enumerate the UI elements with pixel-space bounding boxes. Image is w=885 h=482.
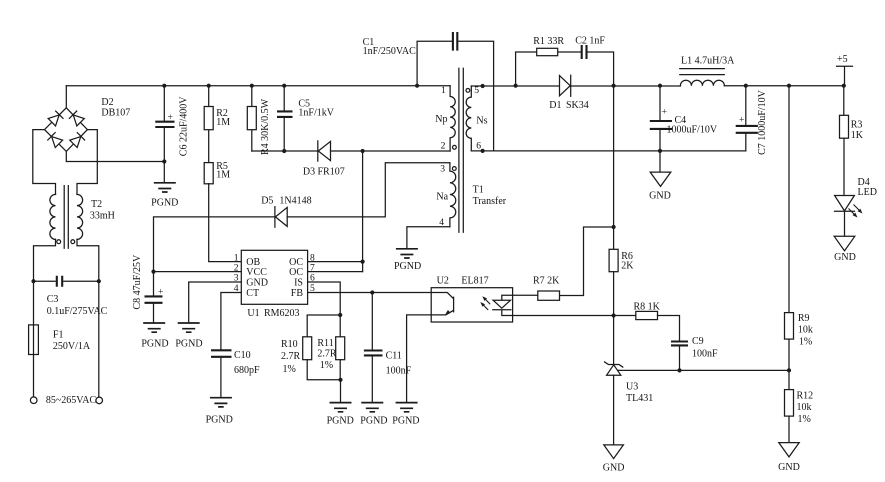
svg-text:1K: 1K <box>851 130 864 141</box>
svg-text:+: + <box>662 107 667 118</box>
capacitor C1 <box>417 41 494 151</box>
wire: AC input left column (terminal to fuse to C3 node) <box>33 281 35 397</box>
ground PGND under R10 R11 <box>330 403 352 412</box>
svg-text:F1: F1 <box>53 330 64 341</box>
diode D5 <box>274 207 276 228</box>
capacitor C7 <box>745 86 747 126</box>
svg-text:PGND: PGND <box>392 415 419 426</box>
svg-text:0.1uF/275VAC: 0.1uF/275VAC <box>47 306 108 317</box>
svg-text:1%: 1% <box>798 414 811 425</box>
svg-text:3: 3 <box>440 163 445 174</box>
snubber loop R1 C2 <box>516 52 614 86</box>
svg-text:C8 47uF/25V: C8 47uF/25V <box>132 254 143 310</box>
wire: OC pin7 loop <box>308 271 363 273</box>
svg-text:PGND: PGND <box>141 339 168 350</box>
wire: D3 to T1 pin2 <box>331 150 451 152</box>
capacitor C3 <box>57 276 62 287</box>
op-amp U1 RM6203 body <box>241 250 307 304</box>
wire: D5 anode to Na pin3 <box>287 163 450 217</box>
transformer T1 Np winding <box>450 86 455 151</box>
wire: OC pin8 <box>308 261 363 263</box>
svg-text:C10: C10 <box>234 350 251 361</box>
svg-text:33mH: 33mH <box>90 211 115 222</box>
terminal left <box>30 397 37 404</box>
ground PGND under C6 <box>154 183 176 192</box>
wire: node to R7 loop <box>560 227 614 296</box>
ground PGND under T1 pin4 <box>396 249 418 258</box>
wire: D5 cathode to VCC <box>154 217 275 272</box>
svg-text:10k: 10k <box>798 325 813 336</box>
capacitor C8 <box>153 272 155 296</box>
node D3 out <box>361 149 365 153</box>
svg-text:6: 6 <box>476 141 481 152</box>
svg-text:D1: D1 <box>549 100 561 111</box>
wire: TL431 ref line <box>618 369 789 371</box>
svg-text:D3: D3 <box>303 167 315 178</box>
node C6 top <box>162 84 166 88</box>
node R10 R11 bottom <box>338 378 342 382</box>
svg-text:Np: Np <box>435 114 447 125</box>
diode D3 <box>317 141 319 161</box>
svg-text:1%: 1% <box>283 364 296 375</box>
svg-text:T2: T2 <box>91 199 102 210</box>
svg-text:1M: 1M <box>216 117 230 128</box>
wire: opto emitter to ground <box>407 315 432 403</box>
fuse F1 <box>29 325 39 355</box>
svg-text:OC: OC <box>289 257 303 268</box>
svg-text:R4 30K/0.5W: R4 30K/0.5W <box>260 98 271 155</box>
resistor R9 <box>788 86 790 313</box>
svg-text:5: 5 <box>474 85 479 96</box>
diode D1 <box>560 76 571 96</box>
wire: secondary ground rail <box>471 150 746 152</box>
resistor R7 <box>513 294 538 296</box>
transformer T1 Na winding <box>450 163 456 227</box>
node C6 bottom <box>162 159 166 163</box>
svg-text:R9: R9 <box>798 313 810 324</box>
node R6 top <box>612 225 616 229</box>
ground PGND under C10 <box>210 398 232 407</box>
transistor Q inside U2 <box>431 293 453 315</box>
bridge diode bottom-right <box>70 133 85 148</box>
svg-text:FR107: FR107 <box>318 167 345 178</box>
svg-text:Ns: Ns <box>476 116 487 127</box>
wire: Na pin4 to ground <box>407 227 450 249</box>
svg-text:PGND: PGND <box>175 339 202 350</box>
opto light arrows <box>480 296 490 310</box>
ground PGND under C8 <box>143 323 165 332</box>
wire: C3 branch horizontal <box>34 280 99 282</box>
T1 phase dot pin3 <box>452 167 456 171</box>
svg-text:EL817: EL817 <box>461 276 488 287</box>
svg-text:100nF: 100nF <box>386 366 412 377</box>
node IS <box>338 313 342 317</box>
node OC pin8 <box>361 260 365 264</box>
node pin6 rail <box>481 149 485 153</box>
capacitor C6 <box>163 86 165 121</box>
capacitor C2 <box>582 45 587 59</box>
svg-text:GND: GND <box>834 252 856 263</box>
svg-text:D5: D5 <box>261 196 273 207</box>
wire: right leg up to T2 <box>77 239 99 281</box>
resistor R5 <box>204 163 213 184</box>
resistor R11 <box>336 337 345 360</box>
inductor L1 <box>680 80 724 86</box>
opto U2 EL817 body <box>431 288 512 322</box>
svg-text:R10: R10 <box>281 339 298 350</box>
wire: FB pin5 to opto <box>308 292 432 294</box>
LED D4 <box>835 196 855 211</box>
node pin5 rail <box>481 84 485 88</box>
capacitor C11 <box>371 293 373 350</box>
D4 emission arrows <box>849 205 863 218</box>
svg-text:PGND: PGND <box>206 415 233 426</box>
inductor T2 right winding <box>77 194 83 239</box>
node R9 R12 <box>787 368 791 372</box>
node VCC junction <box>151 270 155 274</box>
svg-text:+: + <box>168 112 173 123</box>
wire: primary top rail <box>66 85 450 87</box>
wire: CT pin4 to C10 <box>221 293 241 350</box>
node D1 out <box>612 84 616 88</box>
transformer T1 Ns winding <box>466 86 471 151</box>
T2 phase dot left <box>57 240 61 244</box>
svg-text:2: 2 <box>441 141 446 152</box>
ground PGND under opto <box>396 403 418 412</box>
ground PGND under C11 <box>361 403 383 412</box>
svg-text:250V/1A: 250V/1A <box>53 341 91 352</box>
svg-text:C2 1nF: C2 1nF <box>575 36 605 47</box>
bridge diode top-right <box>69 111 84 126</box>
svg-text:T1: T1 <box>473 185 484 196</box>
svg-text:U1: U1 <box>247 308 259 319</box>
capacitor C10 <box>211 350 232 357</box>
svg-text:1M: 1M <box>216 170 230 181</box>
resistor R8 <box>614 315 636 317</box>
svg-text:PGND: PGND <box>151 198 178 209</box>
resistor R6 <box>613 227 615 249</box>
opto LED inside U2 <box>502 295 513 300</box>
svg-text:RM6203: RM6203 <box>264 308 300 319</box>
resistor R2 <box>208 86 210 163</box>
T1 core <box>459 68 463 232</box>
svg-text:2.7R: 2.7R <box>281 351 301 362</box>
resistor R1 <box>537 48 558 55</box>
node R8 TL431 <box>612 313 616 317</box>
wire: left leg up to T2 <box>34 239 56 281</box>
svg-text:D2: D2 <box>101 97 113 108</box>
svg-text:FB: FB <box>291 288 304 299</box>
svg-text:IS: IS <box>294 278 303 289</box>
capacitor C4 <box>659 86 661 121</box>
svg-text:+5: +5 <box>837 54 848 65</box>
svg-text:2.7R: 2.7R <box>317 349 337 360</box>
ground GND under C4 <box>650 172 671 186</box>
capacitor C9 <box>671 342 688 346</box>
wire: IS pin6 branch <box>307 282 340 337</box>
svg-text:2K: 2K <box>621 260 634 271</box>
svg-text:PGND: PGND <box>394 261 421 272</box>
inductor T2 left winding <box>50 194 56 239</box>
svg-text:OC: OC <box>289 267 303 278</box>
wire: snubber bottom to D3 <box>252 150 318 152</box>
bridge D2 diamond <box>45 108 88 152</box>
svg-text:C6 22uF/400V: C6 22uF/400V <box>179 96 190 157</box>
svg-text:Transfer: Transfer <box>473 196 507 207</box>
wire: Vout sense riser to R6 node <box>613 86 615 227</box>
svg-text:C3: C3 <box>47 294 59 305</box>
svg-text:680pF: 680pF <box>234 365 260 376</box>
svg-text:1: 1 <box>441 85 446 96</box>
resistor R3 <box>843 86 845 116</box>
shunt regulator U3 TL431 <box>613 316 615 365</box>
wire: bridge bottom to gnd rail <box>66 151 164 161</box>
bridge diode bottom-left <box>48 133 63 148</box>
T2 core <box>64 186 68 249</box>
ground PGND pin3 <box>178 323 200 332</box>
svg-text:R1 33R: R1 33R <box>533 36 564 47</box>
wire: secondary top rail <box>471 85 844 87</box>
node R9 riser <box>787 84 791 88</box>
svg-text:R12: R12 <box>797 391 814 402</box>
svg-text:U2: U2 <box>437 276 449 287</box>
svg-text:PGND: PGND <box>360 415 387 426</box>
wire: opto cathode to R8 node <box>513 315 614 317</box>
svg-text:OB: OB <box>246 257 260 268</box>
svg-text:GND: GND <box>778 462 800 473</box>
wire: bridge top to rail <box>65 86 67 108</box>
resistor R4 <box>251 86 253 151</box>
svg-text:10k: 10k <box>797 402 812 413</box>
node C3 right <box>97 279 101 283</box>
svg-text:+: + <box>739 115 744 126</box>
svg-text:R11: R11 <box>317 338 333 349</box>
ground GND under U3 <box>604 445 624 459</box>
wire: T2 left top to bridge left corner <box>33 130 56 195</box>
svg-text:L1 4.7uH/3A: L1 4.7uH/3A <box>681 56 735 67</box>
svg-text:GND: GND <box>649 191 671 202</box>
svg-text:R7 2K: R7 2K <box>533 276 560 287</box>
svg-text:U3: U3 <box>626 382 638 393</box>
svg-text:CT: CT <box>246 288 259 299</box>
svg-text:SK34: SK34 <box>566 100 589 111</box>
wire: AC input right column <box>98 281 100 397</box>
T1 phase dot pin5 <box>466 89 470 93</box>
wire: VCC pin2 <box>154 271 242 273</box>
svg-text:1000uF/10V: 1000uF/10V <box>667 125 718 136</box>
svg-text:LED: LED <box>858 187 877 198</box>
svg-text:VCC: VCC <box>246 267 267 278</box>
T2 phase dot right <box>71 240 75 244</box>
svg-text:GND: GND <box>246 278 268 289</box>
ground GND under R12 <box>779 443 799 457</box>
T1 phase dot pin2 <box>453 145 457 149</box>
svg-text:+: + <box>158 286 163 297</box>
svg-text:R8 1K: R8 1K <box>634 302 661 313</box>
svg-text:GND: GND <box>603 463 625 474</box>
svg-text:PGND: PGND <box>327 415 354 426</box>
node FB C11 <box>370 290 374 294</box>
svg-text:Na: Na <box>436 192 448 203</box>
svg-text:C11: C11 <box>386 351 402 362</box>
terminal right <box>96 397 103 404</box>
svg-text:1%: 1% <box>320 360 333 371</box>
wire: GND pin3 to ground <box>189 282 242 323</box>
svg-text:100nF: 100nF <box>692 349 718 360</box>
svg-text:C7 1000uF/10V: C7 1000uF/10V <box>757 89 768 155</box>
resistor R10 <box>303 337 312 360</box>
svg-text:TL431: TL431 <box>626 393 653 404</box>
wire: T2 right top to bridge right corner <box>77 130 97 195</box>
node C3 left <box>31 279 35 283</box>
bridge diode top-left <box>48 111 63 126</box>
resistor R12 <box>788 370 790 389</box>
svg-text:85~265VAC: 85~265VAC <box>46 395 97 406</box>
svg-text:1nF/250VAC: 1nF/250VAC <box>363 46 416 57</box>
svg-text:DB107: DB107 <box>101 108 130 119</box>
ground GND under D4 <box>834 236 855 251</box>
capacitor C5 <box>283 86 285 151</box>
wire: drain vertical to OC pins <box>362 151 364 272</box>
svg-text:1nF/1kV: 1nF/1kV <box>298 108 334 119</box>
svg-text:R3: R3 <box>851 120 863 131</box>
svg-text:1%: 1% <box>799 337 812 348</box>
svg-text:C9: C9 <box>692 336 704 347</box>
svg-text:1N4148: 1N4148 <box>279 196 311 207</box>
